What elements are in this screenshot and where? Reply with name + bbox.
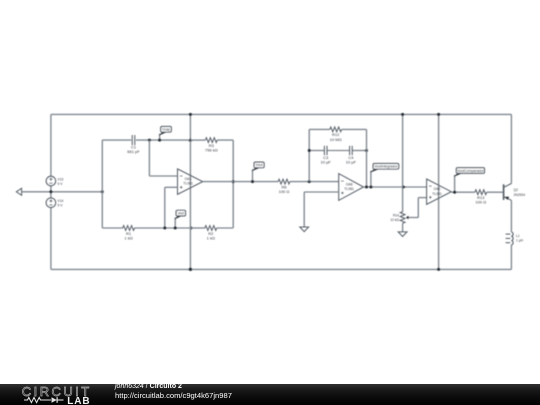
svg-text:661 pF: 661 pF bbox=[127, 149, 140, 154]
voltage source V14 bbox=[46, 198, 63, 208]
wire bottom branch R1 bbox=[102, 227, 190, 229]
junction feedback output bbox=[232, 180, 235, 183]
svg-text:10 kΩ: 10 kΩ bbox=[390, 218, 399, 222]
junction Vout stub bbox=[251, 180, 254, 183]
CircuitLab logo wordmark bbox=[22, 384, 92, 405]
junction cap branch left bbox=[308, 149, 311, 152]
ground integrator bbox=[300, 227, 309, 232]
svg-text:R14: R14 bbox=[393, 213, 399, 217]
wire feedback cap branch bbox=[309, 150, 366, 152]
junction rail top branch (up arrow) bbox=[189, 138, 193, 141]
wire noninverting input bbox=[165, 187, 178, 228]
wire integrator feedback left bbox=[308, 129, 310, 181]
svg-text:10 µF: 10 µF bbox=[321, 159, 332, 164]
svg-text:100 Ω: 100 Ω bbox=[279, 189, 290, 194]
wire wiper to OA2 noninv bbox=[418, 198, 426, 218]
svg-text:TL081: TL081 bbox=[344, 187, 354, 191]
svg-text:LAB: LAB bbox=[67, 396, 90, 405]
wire right rail upper (to Q2 collector) bbox=[510, 114, 512, 183]
wire vertical rail to R14 bbox=[402, 114, 404, 211]
wire to inverting input bbox=[149, 140, 177, 176]
voltage source V13 bbox=[46, 176, 63, 186]
wire OA8 output bbox=[364, 186, 427, 188]
svg-text:TL081: TL081 bbox=[183, 182, 193, 186]
wire feedback top branch bbox=[309, 128, 366, 130]
flag Vcap bbox=[159, 126, 172, 140]
svg-text:9 V: 9 V bbox=[58, 204, 64, 208]
junction rail top rail bbox=[189, 113, 192, 116]
wire top supply rail bbox=[51, 113, 512, 115]
wire top branch R3 bbox=[190, 139, 233, 141]
svg-text:Vout: Vout bbox=[256, 163, 263, 167]
node input terminal arrow bbox=[16, 188, 21, 195]
wire C1 top branch bbox=[102, 139, 190, 141]
svg-text:10 MΩ: 10 MΩ bbox=[330, 137, 342, 142]
capacitor C3 bbox=[321, 146, 332, 165]
svg-text:OA8: OA8 bbox=[346, 183, 353, 187]
junction network input bbox=[101, 190, 104, 193]
potentiometer R14 bbox=[390, 212, 418, 224]
wire right rail lower (Q2 emitter to L1 to bottom rail) bbox=[510, 200, 512, 269]
capacitor C1 bbox=[127, 135, 140, 154]
flag Vout bbox=[252, 162, 264, 182]
svg-text:Vcap: Vcap bbox=[162, 128, 170, 132]
op-amp OA2 bbox=[427, 179, 452, 204]
svg-text:100 Ω: 100 Ω bbox=[475, 200, 486, 205]
ground R14 bbox=[398, 232, 407, 237]
resistor R13 bbox=[475, 190, 487, 205]
svg-text:1 kΩ: 1 kΩ bbox=[207, 235, 215, 240]
svg-text:2N2904: 2N2904 bbox=[514, 193, 526, 197]
junction rail R14 top rail bbox=[401, 113, 404, 116]
resistor R3 bbox=[205, 138, 218, 153]
wire left rail (battery branch) bbox=[50, 114, 52, 269]
junction feedback out bbox=[365, 186, 368, 189]
wire bottom rail bbox=[51, 268, 512, 270]
flag Vref bbox=[175, 210, 186, 228]
svg-text:OA1: OA1 bbox=[185, 177, 192, 181]
capacitor C4 bbox=[346, 146, 357, 165]
inductor L1 bbox=[506, 232, 524, 245]
svg-text:VoutComparador: VoutComparador bbox=[457, 169, 485, 173]
svg-text:L1: L1 bbox=[516, 234, 520, 238]
wire input to amplifier network bbox=[22, 191, 103, 193]
svg-text:VoutIntegrador: VoutIntegrador bbox=[374, 165, 398, 169]
footer bar bbox=[0, 384, 540, 405]
wire R14 bottom to ground bbox=[402, 223, 404, 232]
op-amp OA8 bbox=[339, 174, 364, 201]
junction VoutComparador stub bbox=[453, 191, 456, 194]
junction C1 out bbox=[148, 139, 151, 142]
svg-text:9 V: 9 V bbox=[58, 182, 64, 186]
transistor Q2 bbox=[504, 184, 526, 201]
resistor R6 bbox=[278, 179, 290, 194]
wire OA1 output bbox=[203, 181, 339, 183]
junction rail OA2 top bbox=[437, 113, 440, 116]
svg-text:V13: V13 bbox=[58, 177, 64, 181]
junction comparator input (right arrow) bbox=[403, 185, 406, 189]
wire vertical rail through OA1 bbox=[189, 114, 191, 269]
junction sources mid bbox=[49, 190, 52, 193]
junction integrator input bbox=[308, 180, 311, 183]
wire vertical rail through OA2 bbox=[438, 114, 440, 269]
svg-text:1 µH: 1 µH bbox=[516, 239, 524, 243]
wire OA2 output bbox=[451, 191, 503, 193]
junction Vref stub bbox=[174, 227, 177, 230]
flag VoutComparador bbox=[454, 168, 485, 193]
resistor R12 bbox=[330, 127, 342, 142]
logo schematic line with resistor and diode bbox=[24, 397, 51, 402]
wire network left vertical bbox=[101, 140, 103, 228]
wire bottom branch R2 bbox=[190, 227, 233, 229]
svg-text:V14: V14 bbox=[58, 199, 64, 203]
resistor R2 bbox=[205, 226, 217, 241]
junction cap branch right bbox=[365, 149, 368, 152]
op-amp OA1 bbox=[178, 169, 203, 195]
resistor R1 bbox=[123, 226, 135, 241]
junction noninv bottom bbox=[163, 227, 166, 230]
junction rail bottom branch (right arrow) bbox=[191, 226, 194, 230]
wire feedback right vertical bbox=[232, 140, 234, 228]
svg-text:OA2: OA2 bbox=[434, 187, 441, 191]
svg-text:1 kΩ: 1 kΩ bbox=[124, 235, 132, 240]
svg-text:Q2: Q2 bbox=[514, 188, 519, 192]
flag VoutIntegrador bbox=[370, 163, 399, 187]
junction rail OA1 bottom bbox=[189, 268, 192, 271]
junction rail bottom bbox=[189, 268, 192, 271]
wire integrator feedback right bbox=[366, 129, 368, 187]
junction Vcap stub bbox=[158, 139, 161, 142]
svg-text:Vref: Vref bbox=[178, 211, 184, 215]
wire OA8 noninv to ground bbox=[304, 192, 339, 227]
svg-text:756 kΩ: 756 kΩ bbox=[205, 148, 218, 153]
junction VoutIntegrador stub bbox=[369, 186, 372, 189]
svg-text:TL081: TL081 bbox=[432, 192, 442, 196]
svg-text:10 µF: 10 µF bbox=[346, 159, 357, 164]
junction rail OA2 bottom bbox=[437, 268, 440, 271]
